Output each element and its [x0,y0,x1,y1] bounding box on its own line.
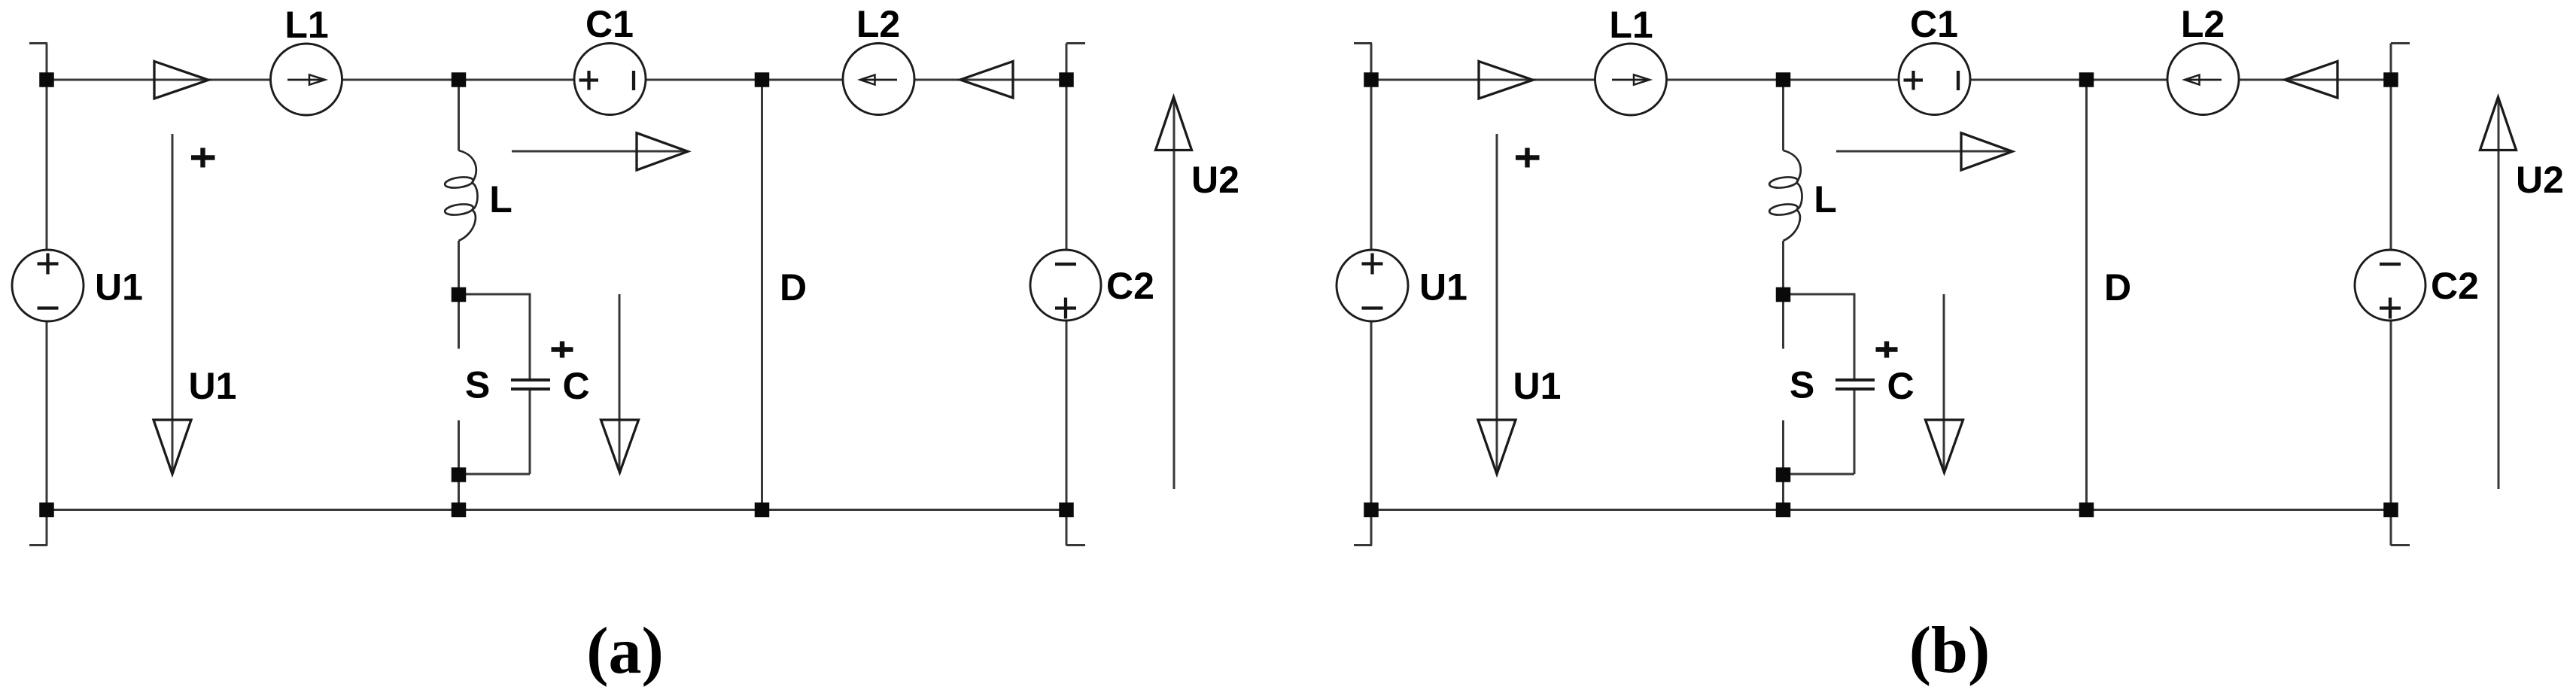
svg-text:(b): (b) [1909,614,1991,687]
svg-text:(a): (a) [586,615,664,688]
